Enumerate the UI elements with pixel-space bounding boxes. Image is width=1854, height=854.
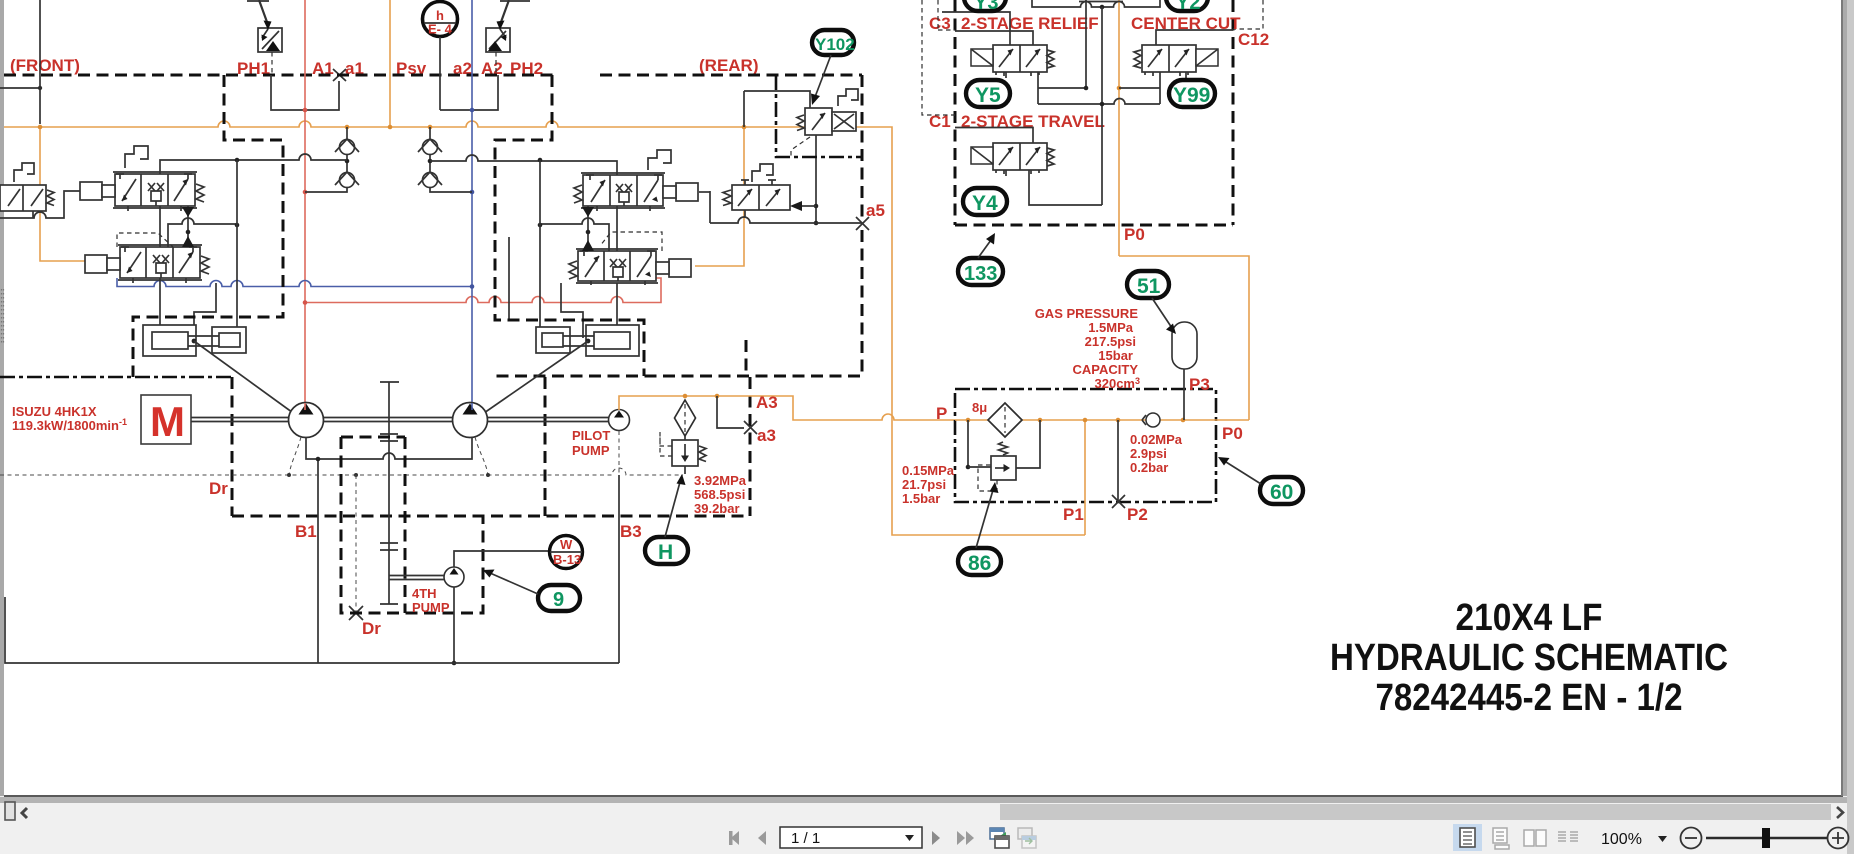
svg-text:Y4: Y4 (972, 192, 998, 215)
port a5 X mark (856, 217, 869, 230)
boundary dashed line y75 rear box top (600, 74, 862, 77)
svg-text:1.5bar: 1.5bar (902, 491, 940, 506)
svg-text:3.92MPa: 3.92MPa (694, 473, 747, 488)
label Y5 oval (966, 80, 1010, 107)
wire bus y7 (1032, 0, 1160, 7)
wire C12 to Y99 (1156, 30, 1233, 46)
block border (955, 0, 1233, 225)
svg-text:217.5psi: 217.5psi (1085, 334, 1136, 349)
svg-text:78242445-2 EN - 1/2: 78242445-2 EN - 1/2 (1376, 677, 1683, 719)
swash link rear (458, 341, 588, 431)
svg-text:GAS PRESSURE: GAS PRESSURE (1035, 306, 1139, 321)
left gray page edge (0, 0, 4, 796)
pilot dash lines top (922, 0, 955, 115)
pressure switch PH1 (258, 0, 282, 52)
port Dr X mark (349, 606, 363, 620)
label 133 oval (958, 258, 1003, 285)
dashed pilot rect above V-R2 (600, 232, 662, 251)
C12 notch (1233, 0, 1263, 29)
red into pump (304, 403, 306, 410)
drain dashed vertical to Dr (355, 475, 357, 613)
swash link front (194, 341, 318, 431)
4th pump (444, 567, 464, 587)
svg-text:0.15MPa: 0.15MPa (902, 463, 955, 478)
check sandwich front (187, 206, 189, 247)
blue wire vertical x472 (471, 0, 473, 403)
svg-text:2.9psi: 2.9psi (1130, 446, 1167, 461)
svg-text:P2: P2 (1127, 505, 1148, 524)
servo actuator rear (536, 325, 639, 356)
valve Y99 (1142, 45, 1196, 76)
arrow 133 (978, 240, 991, 258)
wire lower valve to x540 (540, 218, 609, 251)
wire 4th pump top to WB13 (454, 551, 549, 567)
label Y102 oval (812, 30, 854, 55)
relief valve 86 (967, 420, 969, 467)
next page btn (932, 831, 940, 845)
page bottom border (4, 795, 1843, 797)
svg-text:9: 9 (553, 589, 564, 611)
svg-text:133: 133 (964, 263, 997, 285)
svg-text:320cm3: 320cm3 (1095, 376, 1141, 391)
arrow 60 (1226, 462, 1261, 484)
motor M box (141, 395, 191, 444)
verticals rear valves (509, 206, 617, 338)
front bottom dash-dot (0, 376, 232, 379)
node junction dot x40 y88 (38, 86, 42, 90)
small valve at left edge (0, 185, 46, 211)
arrow Y102 (815, 55, 831, 97)
dash-dot enclosure Y102 (776, 75, 862, 157)
svg-text:P: P (936, 404, 947, 423)
svg-text:PUMP: PUMP (572, 443, 610, 458)
svg-text:B1: B1 (295, 522, 317, 541)
B3 right edge (749, 377, 752, 516)
svg-text:1.5MPa: 1.5MPa (1088, 320, 1134, 335)
sensor W B-13 (550, 536, 583, 569)
svg-text:W: W (560, 537, 573, 552)
red wire vertical x305 (304, 0, 306, 403)
next view icon (disabled) (1018, 828, 1032, 839)
page number box (780, 827, 922, 848)
vertical scrollbar (1847, 0, 1854, 854)
pump P2 rear (453, 403, 488, 438)
svg-text:ISUZU 4HK1X: ISUZU 4HK1X (12, 404, 97, 419)
pilot box V-R2 right (656, 259, 691, 277)
horizontal scrollbar thumb (1000, 804, 1831, 820)
servo actuator front (143, 325, 246, 356)
pilot wires small valve (0, 191, 80, 218)
svg-text:Y99: Y99 (1173, 84, 1210, 107)
pilot wire rear upper (699, 191, 710, 193)
pilot box V-F1 (80, 182, 115, 200)
arrow 86 (976, 490, 993, 548)
boundary dashed line y75 front (4, 74, 553, 77)
wires Y99 bottom (1119, 72, 1186, 104)
valve Y4 (993, 143, 1047, 174)
spring V-R1 left (574, 185, 582, 203)
orange Psv vertical (389, 0, 391, 127)
pilot box V-R1 right (663, 183, 698, 201)
filter 8u diamond (988, 403, 1022, 437)
label H oval (645, 537, 688, 564)
dashed pilot rect above V-F2 (117, 233, 173, 247)
gauge h E-4 (423, 2, 458, 37)
wire gauge down (439, 37, 441, 110)
label 60 oval (1260, 477, 1303, 504)
label Y99 oval (1169, 80, 1215, 107)
wire a5 (710, 191, 862, 223)
orange main through block (955, 256, 1249, 535)
svg-text:(FRONT): (FRONT) (10, 56, 80, 75)
svg-text:a3: a3 (757, 426, 776, 445)
valve V-F1 upper main (113, 172, 197, 211)
wire y160 rear (430, 155, 617, 175)
wires Y4 bottom (1006, 170, 1102, 205)
wire C1 to Y4 (955, 128, 1033, 144)
wire pump bottoms (306, 437, 472, 663)
orange branch rear (695, 127, 744, 266)
top edge fragments (247, 0, 1123, 3)
spring V-R2 left (569, 261, 577, 279)
orange branch to front lower pilot (40, 127, 85, 261)
dashed pilot diag Y102 (791, 137, 810, 157)
cut ovals Y3 Y2 (964, 0, 1006, 11)
vertical x237 (236, 160, 238, 329)
block 60 border (955, 389, 1216, 502)
svg-text:0.02MPa: 0.02MPa (1130, 432, 1183, 447)
wire PH1 drop (271, 75, 339, 110)
svg-text:A3: A3 (756, 393, 778, 412)
plugged port a1 X mark (333, 69, 346, 81)
vertical x1086 (1086, 0, 1102, 205)
wire top-left corner (0, 0, 40, 124)
blue into pump (471, 403, 473, 410)
wire pilot pump drain (618, 475, 620, 663)
svg-text:15bar: 15bar (1098, 348, 1133, 363)
front box step (133, 75, 283, 377)
svg-text:Y2: Y2 (1176, 0, 1200, 14)
spring V-F1 (196, 184, 204, 202)
svg-text:210X4 LF: 210X4 LF (1456, 597, 1603, 639)
scroll right chevron (1837, 807, 1843, 818)
rear box right edge (495, 75, 862, 376)
view mode icons (1453, 824, 1482, 851)
gearbox dashed box (341, 437, 483, 613)
first page btn (731, 831, 739, 845)
drive shaft (191, 418, 611, 422)
svg-text:P0: P0 (1124, 225, 1145, 244)
pump P1 front (289, 403, 324, 438)
svg-text:Y3: Y3 (974, 0, 998, 14)
svg-text:P1: P1 (1063, 505, 1084, 524)
pressure switch PH2 (486, 0, 510, 52)
bottom bus (5, 597, 619, 663)
svg-text:P3: P3 (1189, 375, 1210, 394)
svg-text:M: M (150, 398, 185, 445)
pilot box V-F2 (85, 255, 120, 273)
svg-text:PUMP: PUMP (412, 600, 450, 615)
wire Y102 down to a5 line (815, 135, 817, 223)
label 86 oval (958, 548, 1001, 575)
arrow 51 (1152, 298, 1172, 328)
svg-text:86: 86 (968, 552, 991, 575)
vent above Y102 (838, 89, 858, 106)
wires Y5 bottom (1006, 72, 1086, 104)
svg-text:B3: B3 (620, 522, 642, 541)
svg-text:Dr: Dr (362, 619, 381, 638)
check valve P0 (1146, 413, 1160, 427)
vertical x160 between valves (160, 206, 216, 338)
wire Y102 top (744, 91, 810, 127)
svg-text:H: H (658, 541, 673, 564)
check sandwich rear (587, 206, 589, 251)
port P2 X + wire (1117, 420, 1119, 502)
svg-text:a5: a5 (866, 201, 885, 220)
vent above small valve (14, 163, 34, 182)
wire a3 (717, 396, 744, 428)
accumulator 51 (1172, 322, 1197, 369)
orange pilot pump out (619, 396, 955, 420)
wire PH2 drop (440, 75, 498, 110)
prev view icon (990, 828, 1004, 839)
wire lower valve to x237 (168, 218, 237, 247)
svg-text:0.2bar: 0.2bar (1130, 460, 1168, 475)
gear shaft center (380, 382, 399, 604)
drain line (0, 468, 683, 475)
svg-text:4TH: 4TH (412, 586, 437, 601)
sidebar toggle box (5, 802, 15, 820)
svg-text:P0: P0 (1222, 424, 1243, 443)
svg-text:CAPACITY: CAPACITY (1073, 362, 1139, 377)
svg-text:Y5: Y5 (975, 84, 1001, 107)
svg-text:51: 51 (1137, 275, 1161, 298)
red junction dots (303, 108, 308, 113)
spring V-F2 (201, 256, 209, 274)
label Y4 oval (963, 188, 1007, 215)
wire y160 front (160, 154, 347, 174)
vent above V-R1 (648, 150, 671, 170)
orange pilot bus y127 (4, 121, 1085, 535)
svg-text:B-13: B-13 (553, 552, 581, 567)
rear box left step (495, 75, 644, 376)
red bus y301 (305, 278, 661, 303)
vertical x540 (539, 160, 541, 329)
arrow 9 (490, 573, 538, 594)
valve V-R2 lower main (576, 249, 658, 285)
valve 2pos rear (732, 180, 790, 210)
svg-text:E- 4: E- 4 (428, 22, 453, 37)
check valve pair A1 (305, 127, 359, 192)
svg-text:Y102: Y102 (815, 35, 855, 54)
arrow into 2pos right port (790, 201, 802, 211)
label 9 oval (538, 585, 580, 611)
wire 4th pump down (453, 587, 455, 663)
svg-text:8μ: 8μ (972, 400, 987, 415)
svg-text:(REAR): (REAR) (699, 56, 759, 75)
pump drain curves (289, 431, 619, 475)
orange P0 vertical (1118, 0, 1120, 256)
vent above 2pos (752, 164, 773, 182)
last page btn (957, 831, 965, 845)
B1 box (232, 377, 750, 516)
svg-text:60: 60 (1270, 481, 1293, 504)
check valve pair a2 (418, 127, 472, 192)
svg-text:HYDRAULIC SCHEMATIC: HYDRAULIC SCHEMATIC (1330, 637, 1728, 679)
filter H diamond (675, 400, 696, 436)
orange junction dots bus (38, 125, 43, 130)
svg-text:C12: C12 (1238, 30, 1269, 49)
port a3 X mark (744, 421, 757, 434)
valve V-F2 lower main (118, 245, 202, 283)
svg-text:100%: 100% (1601, 831, 1642, 848)
svg-text:PILOT: PILOT (572, 428, 610, 443)
blue bus y285 (117, 278, 472, 287)
blue junction dots (470, 108, 475, 113)
svg-text:Dr: Dr (209, 479, 228, 498)
svg-text:119.3kW/1800min-1: 119.3kW/1800min-1 (12, 417, 127, 433)
arrow H (665, 482, 680, 537)
relief valve H (672, 436, 698, 474)
valve Y5 (993, 45, 1047, 76)
page right border (1841, 0, 1843, 796)
prev page btn (758, 831, 766, 845)
svg-text:21.7psi: 21.7psi (902, 477, 946, 492)
bus y104 (1038, 99, 1160, 104)
valve Y102 reducing valve (805, 108, 856, 135)
svg-text:39.2bar: 39.2bar (694, 501, 740, 516)
pilot pump (609, 410, 630, 431)
label 51 oval (1127, 271, 1169, 298)
svg-text:568.5psi: 568.5psi (694, 487, 745, 502)
valve V-R1 upper main (581, 173, 665, 211)
svg-text:1 / 1: 1 / 1 (791, 830, 820, 847)
vent symbol above V-F1 (125, 146, 148, 168)
wire C3 to Y5 (942, 12, 1033, 46)
rear port x746 (745, 340, 748, 377)
